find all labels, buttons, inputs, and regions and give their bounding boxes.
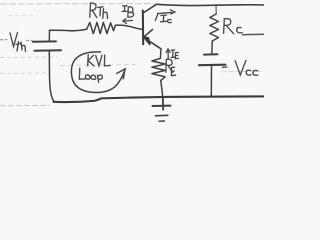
ruled line top	[0, 3, 155, 5]
wire emitter to R_E	[159, 49, 162, 59]
ruled line bottom-left	[0, 104, 50, 107]
resistor R_th	[87, 22, 116, 33]
label Loop	[79, 68, 102, 82]
wire R_E to bottom	[161, 80, 163, 109]
label R_C	[224, 19, 243, 34]
transistor Q1	[143, 4, 161, 49]
label KVL	[88, 55, 110, 66]
ruled line through Vcc label	[222, 70, 264, 73]
collector lead	[143, 4, 157, 13]
KVL loop arrow	[71, 52, 125, 93]
label R_th	[90, 3, 108, 18]
wire right stub	[242, 33, 264, 36]
wire Vcc to bottom	[210, 65, 212, 97]
emitter lead	[143, 37, 161, 49]
ruled line lower-left	[0, 72, 46, 75]
resistor R_C	[210, 5, 219, 53]
label Vth	[10, 33, 26, 52]
label I_C vector	[155, 10, 175, 23]
resistor R_E	[152, 58, 165, 80]
label I_E with arrow	[166, 49, 178, 59]
ground	[153, 97, 171, 121]
label V_CC	[223, 60, 258, 75]
wire left vertical	[49, 50, 54, 101]
wire top-left to R_th	[50, 29, 87, 31]
ruled line mid-left	[0, 56, 57, 59]
smudge mark	[8, 14, 37, 16]
base bar	[142, 11, 144, 45]
emitter arrowhead	[144, 30, 153, 38]
label I_B with arrow	[122, 6, 134, 17]
arrow I_B direction	[123, 19, 133, 24]
wire bottom rail	[54, 96, 265, 102]
wire Vth lead	[0, 40, 34, 41]
battery V_CC	[199, 54, 226, 65]
wire top rail	[157, 4, 265, 5]
wire battery to top-left corner	[48, 30, 50, 41]
battery Vth	[33, 41, 61, 50]
wire R_th to base	[115, 25, 142, 29]
label R_E	[166, 59, 176, 75]
ruled line through loop	[60, 65, 136, 66]
